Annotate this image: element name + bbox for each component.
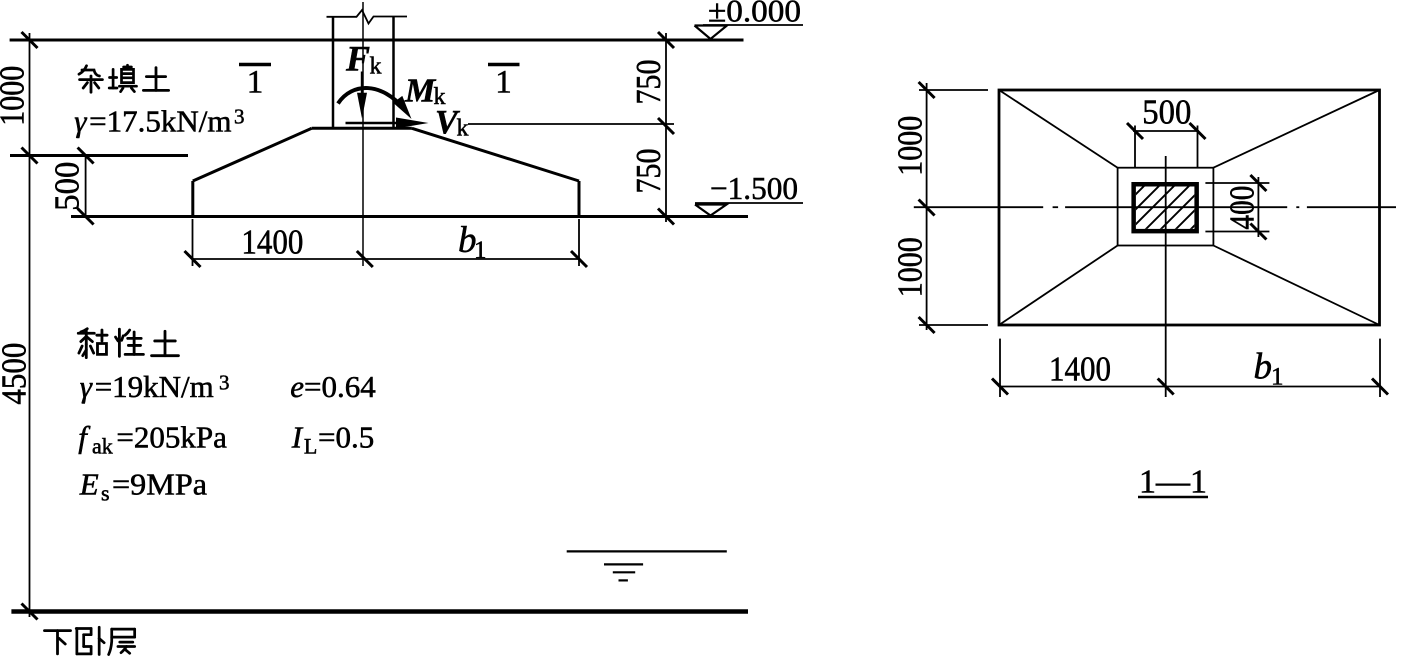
svg-text:1: 1 xyxy=(247,65,264,101)
svg-text:1: 1 xyxy=(495,65,512,101)
svg-text:500: 500 xyxy=(1142,93,1191,132)
svg-text:400: 400 xyxy=(1223,186,1262,230)
svg-text:I: I xyxy=(291,420,304,455)
svg-text:3: 3 xyxy=(234,105,245,129)
svg-text:L: L xyxy=(304,434,317,459)
svg-text:±0.000: ±0.000 xyxy=(708,0,801,29)
svg-text:e: e xyxy=(290,369,304,404)
svg-text:1000: 1000 xyxy=(0,66,32,126)
svg-text:=205kPa: =205kPa xyxy=(116,420,227,455)
svg-text:ak: ak xyxy=(92,434,113,459)
svg-text:=19kN/m: =19kN/m xyxy=(95,369,214,404)
svg-text:1: 1 xyxy=(1271,364,1284,391)
svg-text:1000: 1000 xyxy=(891,237,930,297)
svg-text:γ: γ xyxy=(80,369,93,404)
svg-text:k: k xyxy=(370,54,382,80)
svg-text:=0.64: =0.64 xyxy=(304,369,376,404)
svg-text:F: F xyxy=(345,39,370,79)
svg-text:1—1: 1—1 xyxy=(1139,464,1207,501)
svg-text:−1.500: −1.500 xyxy=(710,170,798,206)
svg-text:1400: 1400 xyxy=(241,222,303,261)
svg-text:M: M xyxy=(404,73,437,110)
svg-text:=9MPa: =9MPa xyxy=(112,467,207,502)
svg-text:750: 750 xyxy=(629,60,668,105)
svg-text:4500: 4500 xyxy=(0,343,34,405)
svg-text:750: 750 xyxy=(629,149,668,194)
svg-text:500: 500 xyxy=(48,162,87,211)
svg-text:3: 3 xyxy=(219,371,230,395)
svg-text:E: E xyxy=(79,467,99,502)
svg-text:b: b xyxy=(1254,347,1273,388)
svg-text:s: s xyxy=(101,481,110,506)
svg-text:γ: γ xyxy=(74,103,87,138)
svg-text:k: k xyxy=(457,116,469,142)
svg-text:1: 1 xyxy=(474,237,487,264)
svg-text:1400: 1400 xyxy=(1049,350,1111,389)
svg-text:=17.5kN/m: =17.5kN/m xyxy=(89,103,231,138)
svg-text:1000: 1000 xyxy=(891,116,930,176)
svg-text:=0.5: =0.5 xyxy=(318,420,374,455)
